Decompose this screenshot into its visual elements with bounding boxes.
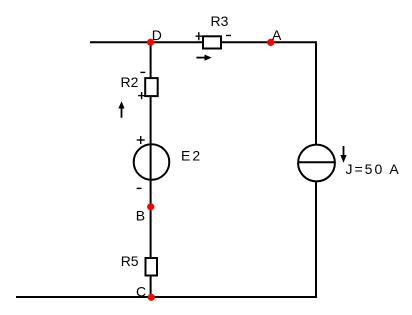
node A: [267, 39, 274, 46]
wire D to R2: [150, 42, 152, 79]
current arrow under R3: [196, 55, 211, 61]
node B: [147, 203, 154, 210]
svg-text:R3: R3: [211, 13, 229, 29]
svg-text:D: D: [152, 27, 162, 43]
resistor R5: [146, 258, 158, 276]
resistor R3: [203, 36, 221, 48]
wire R5 to C: [150, 275, 152, 297]
wire right vertical upper (A to current source): [315, 41, 317, 144]
svg-text:J=50 A: J=50 A: [346, 161, 401, 177]
minus sign R2: [140, 71, 145, 73]
voltage arrow left of R2: [118, 101, 124, 118]
plus sign R3: [196, 32, 203, 40]
current source J: [298, 145, 335, 182]
resistor R2: [145, 78, 158, 96]
wire top horizontal D-A: [90, 41, 316, 43]
svg-text:A: A: [272, 27, 282, 43]
wire right vertical lower (current source to bottom): [315, 181, 317, 298]
svg-text:C: C: [136, 283, 146, 299]
svg-text:E2: E2: [181, 148, 202, 164]
svg-text:B: B: [136, 208, 145, 224]
plus sign E2: [137, 136, 145, 144]
voltage source E2: [134, 144, 170, 180]
minus sign R3: [226, 35, 231, 37]
plus sign R2: [138, 92, 145, 99]
svg-text:R2: R2: [121, 74, 139, 90]
current arrow of source J: [340, 146, 346, 163]
wire R2 to R5 through E2: [150, 95, 152, 259]
wire bottom horizontal: [16, 296, 317, 298]
node D: [147, 39, 154, 46]
svg-text:R5: R5: [121, 253, 139, 269]
minus sign E2: [137, 187, 142, 189]
node C: [148, 294, 155, 301]
